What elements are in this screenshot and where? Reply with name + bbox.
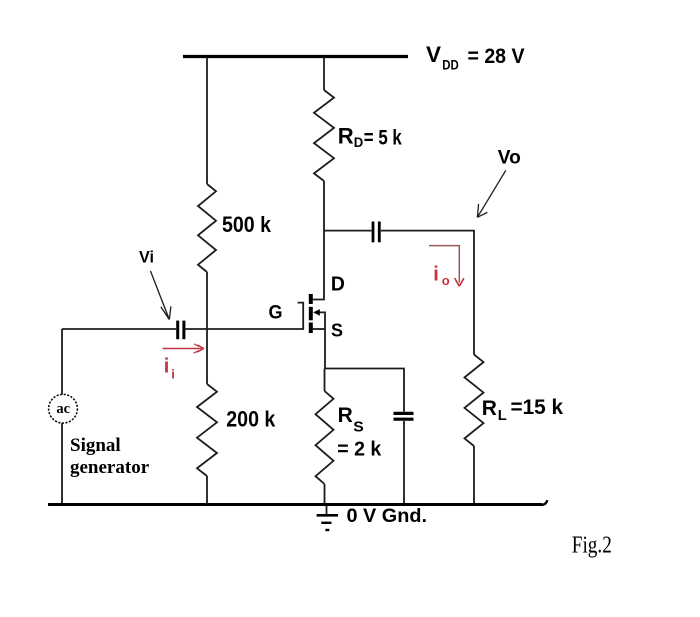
svg-text:S: S	[331, 320, 343, 340]
svg-text:Fig.2: Fig.2	[572, 532, 612, 558]
svg-text:= 2 k: = 2 k	[337, 439, 382, 461]
svg-text:D: D	[331, 274, 345, 296]
svg-text:Signal: Signal	[70, 435, 121, 456]
svg-text:DD: DD	[442, 56, 459, 72]
svg-text:200 k: 200 k	[226, 406, 276, 431]
svg-text:Vi: Vi	[139, 247, 154, 266]
svg-text:Vo: Vo	[498, 147, 521, 168]
svg-text:i: i	[433, 264, 439, 286]
svg-text:S: S	[353, 418, 364, 435]
svg-text:L: L	[498, 408, 507, 424]
svg-text:i: i	[171, 366, 175, 381]
svg-text:R: R	[482, 397, 497, 420]
svg-text:R: R	[338, 124, 354, 149]
svg-text:o: o	[442, 273, 450, 288]
svg-text:500 k: 500 k	[222, 212, 272, 237]
svg-text:= 5 k: = 5 k	[364, 126, 402, 149]
svg-text:0 V Gnd.: 0 V Gnd.	[347, 505, 428, 527]
svg-text:generator: generator	[70, 457, 150, 478]
svg-text:R: R	[338, 404, 353, 427]
svg-text:i: i	[164, 355, 170, 377]
svg-text:V: V	[426, 42, 441, 67]
svg-text:ac: ac	[56, 401, 70, 417]
svg-text:G: G	[269, 302, 283, 324]
svg-text:=15 k: =15 k	[511, 396, 564, 419]
svg-text:= 28 V: = 28 V	[468, 45, 525, 68]
svg-text:D: D	[354, 134, 364, 150]
